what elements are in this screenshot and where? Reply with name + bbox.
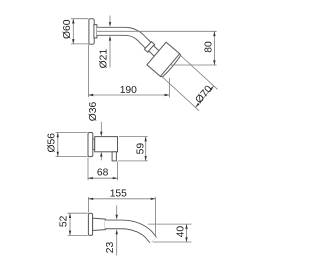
- elbow neck: [93, 139, 95, 150]
- shower head body: [147, 42, 180, 76]
- dimension 190 line: [88, 94, 169, 96]
- 80 bottom extension: [171, 64, 217, 66]
- dimension Ø70 line: [196, 86, 214, 108]
- shower arm tube: [97, 31, 148, 45]
- 155 left extension: [87, 197, 89, 213]
- 40 top extension: [148, 223, 192, 225]
- dimension 59 line: [145, 137, 147, 161]
- dimension 155 line: [88, 198, 155, 200]
- Ø70 extension lines: [181, 56, 218, 90]
- wall extension line (190 left): [87, 44, 89, 97]
- svg-text:190: 190: [120, 85, 137, 96]
- elbow outlet: [112, 152, 116, 161]
- dimension 68 line: [88, 177, 118, 179]
- shower arm flange: [89, 19, 94, 45]
- 68 left extension: [87, 158, 89, 181]
- dimension 52 line: [69, 213, 71, 235]
- elbow flange: [88, 133, 93, 157]
- 190 right extension line: [168, 78, 170, 98]
- dimension 23 arrows: [116, 206, 118, 216]
- 40 bottom extension: [153, 241, 192, 243]
- svg-text:80: 80: [204, 41, 215, 53]
- shower head connector nut: [144, 42, 154, 53]
- 155 right extension: [155, 197, 157, 236]
- dimension Ø60 line: [72, 19, 74, 44]
- svg-text:52: 52: [59, 215, 70, 227]
- arm centerline / 80 top extension: [97, 30, 217, 32]
- shower head face chamfer: [160, 54, 180, 77]
- elbow body: [95, 137, 118, 152]
- dimension Ø36 arrows: [100, 122, 102, 132]
- shower head neck: [149, 46, 160, 57]
- 59 top extension: [119, 136, 148, 138]
- svg-text:23: 23: [105, 242, 116, 254]
- svg-text:Ø60: Ø60: [62, 19, 73, 39]
- dimension 80 line: [213, 31, 215, 65]
- svg-text:40: 40: [176, 226, 187, 238]
- spout flange: [88, 213, 92, 235]
- 68 right extension: [117, 162, 119, 181]
- dimension Ø21 arrows: [109, 16, 111, 23]
- 59 bottom extension: [118, 160, 148, 162]
- svg-text:Ø56: Ø56: [47, 133, 58, 153]
- shower arm hub: [94, 25, 97, 38]
- dimension 40 line: [186, 224, 188, 242]
- svg-text:155: 155: [110, 189, 127, 200]
- svg-text:Ø21: Ø21: [99, 49, 110, 69]
- svg-text:Ø36: Ø36: [88, 101, 99, 121]
- svg-text:59: 59: [136, 143, 147, 155]
- spout tube: [105, 224, 153, 240]
- dimension Ø56 line: [57, 133, 59, 157]
- spout neck: [93, 218, 106, 230]
- dimension Ø56 extension ticks: [56, 132, 88, 134]
- dimension Ø60 extension ticks: [71, 18, 89, 20]
- svg-text:68: 68: [97, 168, 109, 179]
- dimension 52 extension ticks: [68, 212, 88, 214]
